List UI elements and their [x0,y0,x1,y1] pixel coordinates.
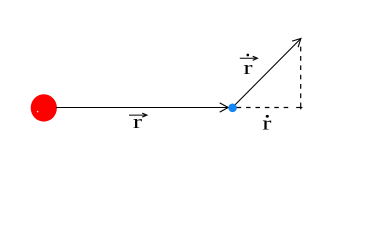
wire: bottom dash of vertical projection crossing junction [300,103,302,110]
label vec r : over-arrow shaft [129,114,145,116]
wire: velocity vector shaft (diagonal) [232,39,301,108]
label dot r : letter r [262,113,271,134]
wire: last dash of horizontal projection through junction [296,107,302,109]
wire: position vector r shaft [56,107,228,109]
svg-text:r: r [133,112,142,133]
label dot vec r : over-arrow head [253,56,258,60]
svg-text:r: r [243,58,252,79]
blue point particle [228,104,237,113]
label dot vec r : over-arrow shaft [240,57,256,59]
red body mass [31,94,57,121]
highlight dot inside red body [37,111,39,113]
label dot vec r (velocity) : dot accent [247,54,250,57]
svg-text:r: r [262,113,271,134]
label dot vec r : letter r [243,58,252,79]
arrowhead of vector r [220,103,229,112]
label vec r : over-arrow head [142,113,147,117]
label dot r (scalar rate) : dot accent [266,115,269,118]
label vec r : letter r [133,112,142,133]
wire: dashed vertical projection line [300,42,302,99]
wire: dashed horizontal projection line [237,107,289,109]
arrowhead of velocity vector [292,39,301,48]
